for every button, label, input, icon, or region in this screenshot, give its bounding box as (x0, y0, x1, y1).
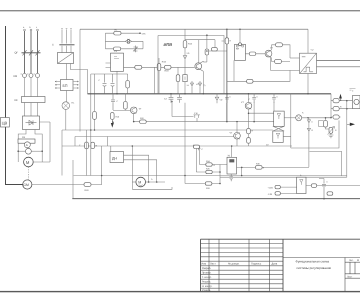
frame bottom border (0, 291, 360, 292)
zener VD4 (183, 55, 187, 61)
resistor R9 (275, 59, 282, 63)
tachogenerator BR1 (23, 180, 32, 189)
wire VT5 collector (236, 123, 238, 133)
wire lamp to bus (65, 109, 67, 130)
svg-text:QF: QF (15, 52, 19, 55)
wire rectifier minus pole (35, 130, 42, 163)
wire riser x220 (219, 165, 221, 184)
wire y74 row (91, 73, 128, 75)
transistor VT1 (195, 63, 202, 70)
wire riser x274 (273, 102, 275, 111)
motor M2 (136, 177, 146, 187)
power supply unit BP1 (61, 80, 74, 91)
wire switch to transformer (62, 46, 71, 53)
wire BP1 to lamp (65, 91, 68, 102)
svg-text:КК: КК (15, 99, 19, 102)
resistor R40 tacho feedback (84, 183, 91, 187)
svg-text:Т. контр.: Т. контр. (202, 276, 212, 279)
wire transformer to PSU (66, 64, 68, 80)
node snubber right (139, 32, 141, 34)
wire riser x101 (101, 146, 103, 176)
wire U1 top (231, 146, 233, 157)
node VT3 e (133, 121, 135, 123)
capacitor C7 (252, 94, 256, 103)
capacitor C8 (272, 94, 276, 103)
pins BP1 left (55, 81, 60, 89)
wire cross couple (273, 126, 284, 131)
wire phase A drop (24, 31, 26, 73)
wire VT3 base (113, 109, 130, 111)
voltmeter PV2 (26, 148, 32, 154)
resistor R13 (93, 112, 97, 120)
node pot branch (325, 117, 327, 119)
resistor R1 (114, 31, 121, 35)
svg-text:+12В: +12В (268, 187, 274, 190)
wire left voltmeter line (6, 26, 23, 185)
svg-text:ЦВ: ЦВ (2, 121, 8, 126)
svg-text:Функциональная схема: Функциональная схема (296, 259, 330, 263)
transformer T1 diagonal (58, 53, 74, 64)
wire riser x185b (184, 176, 186, 184)
wire A2 out loop (283, 94, 339, 148)
transistor VT4 (245, 103, 252, 110)
svg-text:Утверд.: Утверд. (202, 289, 212, 292)
wire diode hangs (192, 81, 200, 94)
diode VD6 (198, 82, 202, 87)
wire VT1 collector (202, 60, 204, 63)
wire y183 row (185, 183, 220, 185)
capacitor C5 (85, 142, 89, 149)
wire summator out (302, 117, 331, 119)
wire R5 row (207, 50, 227, 52)
resistor R26 (206, 170, 212, 173)
wire U1 j down (241, 167, 243, 175)
arrow minus out (111, 119, 114, 127)
wire relay to rectifier (25, 103, 38, 117)
svg-text:КН: КН (236, 48, 239, 51)
resistor R33 (333, 115, 339, 119)
summator AW1 (296, 115, 302, 121)
breaker QF1 contacts (23, 50, 40, 55)
node M2 j1 (148, 181, 150, 183)
node ipv top (206, 34, 208, 36)
svg-text:Лит.: Лит. (349, 259, 354, 262)
switch QS1 bar (59, 44, 74, 46)
wire riser x346 (346, 101, 348, 178)
wire collector join (203, 61, 207, 63)
voltage sensor DN box (110, 152, 124, 163)
svg-text:RS: RS (22, 136, 26, 139)
arrow up feedback (339, 94, 342, 99)
wire bias row (227, 70, 290, 81)
resistor R36 (275, 185, 280, 188)
wire to inverter (290, 57, 300, 59)
wire bus y175 (74, 175, 347, 177)
IPV enclosure (158, 36, 224, 94)
wire riser x80 (79, 29, 81, 131)
svg-text:(Т): (Т) (203, 84, 206, 87)
capacitor C14b below bus (111, 94, 115, 110)
wire riser x227 (226, 29, 228, 121)
diode VD9 (215, 94, 219, 103)
svg-text:БП: БП (63, 84, 68, 88)
output arrow right (347, 123, 355, 126)
diode VD5 (190, 82, 194, 87)
wire riser x94 (94, 74, 96, 130)
title block h-lines (201, 244, 284, 289)
resistor R10 (247, 79, 253, 83)
wire riser x89 low (90, 130, 92, 176)
wire KN bottom pin (233, 60, 235, 81)
resistor R4 (164, 65, 171, 69)
svg-text:-12В: -12В (268, 193, 273, 196)
wire pot link (326, 127, 331, 135)
wire C9 drop (195, 150, 197, 172)
wire riser x107 (106, 137, 108, 147)
wire riser x254 (253, 102, 255, 122)
capacitor C10h (172, 102, 200, 122)
transistor VT3 (130, 107, 137, 114)
resistor R37 (275, 192, 280, 195)
wire pot loop (319, 121, 324, 127)
wire C13 top (319, 179, 324, 186)
wire riser x206 (206, 35, 208, 62)
wire A1 input (249, 112, 274, 114)
rectifier VD1 box (23, 116, 40, 130)
wire R15 hangs (177, 67, 179, 93)
opamp A3 box (297, 177, 306, 193)
svg-text:GM: GM (23, 183, 29, 187)
wire PV2 right (31, 150, 42, 152)
wire y164 row (200, 164, 228, 166)
voltmeter box PV1 (1, 118, 10, 128)
resistor R15 (176, 75, 180, 82)
node j220a (219, 171, 221, 173)
ammeter PA1 (24, 142, 30, 148)
pulse box KN (235, 44, 246, 60)
load box M3 (353, 96, 360, 109)
wire pot branch (325, 118, 327, 121)
wire R37 to A3 (280, 192, 296, 194)
resistor R39 (327, 192, 333, 195)
resistor R28 (205, 182, 212, 185)
wire varistor row (105, 40, 143, 42)
thermal relay KK1 box (22, 97, 46, 103)
wire collector feed (185, 40, 215, 63)
wire R17 hang (124, 94, 126, 111)
capacitor C10 horizontal (194, 145, 200, 148)
zener VD7 (307, 119, 311, 123)
wire tacho feedback to bus (91, 176, 102, 185)
svg-text:М: М (138, 180, 141, 184)
wire VT4 top (248, 94, 250, 103)
wire inverter out1 (317, 60, 360, 62)
wire TZ output (124, 66, 195, 68)
wire VT2 emitter (271, 57, 300, 70)
wire top supply bus (80, 28, 308, 30)
wire PV2 left (18, 150, 25, 152)
potentiometer R35 (329, 127, 333, 133)
wire VT4 down (248, 109, 250, 128)
svg-text:Лист: Лист (210, 262, 216, 265)
resistor R21 (91, 142, 95, 148)
rectifier VD1 diode symbol (26, 120, 37, 125)
zener VD2 (134, 46, 138, 53)
node stack j2 (346, 108, 348, 110)
resistor R19 (157, 64, 161, 71)
wire VT3 emitter down (133, 114, 135, 122)
wire R19 to bus (158, 58, 160, 94)
wire KN out (245, 53, 265, 55)
node phase C terminal (37, 29, 39, 31)
resistor R22 (247, 128, 251, 133)
node M2 j2 (156, 181, 158, 183)
wire enclosure bottom (220, 176, 347, 178)
capacitor C4 (103, 74, 107, 94)
node PV2 left junction (17, 150, 19, 152)
wire DN feed (110, 146, 112, 152)
resistor R24 (206, 163, 212, 166)
wire transformer tap right (71, 64, 88, 94)
node bus junctions (90, 28, 332, 199)
node c10 j (171, 101, 172, 102)
wire tap x154 (153, 67, 155, 93)
wire bus y131 (62, 129, 273, 131)
capacitor C13 (322, 182, 326, 199)
node phase B terminal (30, 29, 32, 31)
regulator box U1 (227, 157, 237, 174)
node phase A terminal (24, 29, 26, 31)
resistor R6 (205, 49, 209, 55)
svg-text:Подпись: Подпись (251, 262, 262, 265)
wire inverter out2 (317, 66, 360, 68)
wire VT5 down (236, 139, 238, 146)
wire inverter feed (307, 29, 309, 53)
wire stack links (331, 101, 353, 117)
wire phase C drop (37, 31, 39, 73)
capacitor C2 (169, 94, 174, 103)
resistor R23 (247, 138, 251, 144)
node aux phase terminals (61, 28, 72, 30)
svg-text:1/2: 1/2 (187, 84, 190, 87)
capacitor C9 (194, 146, 200, 150)
wire VT2 bottom loop (272, 57, 291, 61)
wire riser x185 low (184, 103, 186, 176)
wire M1 right to riser (33, 122, 50, 162)
title block right part (283, 258, 360, 292)
svg-text:Реценз.: Реценз. (202, 280, 212, 283)
wire riser x89 (90, 74, 92, 130)
capacitor C6 (225, 94, 229, 103)
capacitor C4b (111, 74, 115, 94)
wire DN out1 (124, 155, 149, 182)
svg-text:Лист: Лист (347, 275, 353, 278)
wire phase B drop (30, 31, 32, 73)
resistor R31 (333, 99, 339, 103)
lamp HL1 (62, 102, 70, 110)
opamp A1 box (274, 111, 285, 126)
resistor R32 (333, 107, 339, 111)
wire tach bottom (132, 187, 172, 189)
transistor VT5 (234, 133, 241, 140)
node KN sync (239, 43, 242, 46)
wire bus y146 (62, 145, 292, 147)
resistor R34 (324, 121, 328, 128)
wire aux phase drops (62, 29, 71, 43)
resistor R7 (225, 38, 229, 44)
resistor R16 (111, 113, 115, 120)
motor M1 (24, 157, 34, 167)
opamp A2 box (273, 131, 283, 142)
wire bus y136 (75, 136, 234, 138)
control box TZ (111, 53, 124, 71)
capacitor C1 (183, 75, 187, 82)
frame top border (0, 10, 360, 11)
pins BP1 right (74, 81, 79, 89)
resistor R12 (127, 74, 129, 94)
wire M2 left (132, 181, 136, 183)
wire riser x185 (184, 29, 186, 93)
wire left riser snubber (104, 33, 106, 49)
resistor R2 (114, 47, 121, 51)
wire riser x62 (61, 130, 63, 176)
wire M2 drop (131, 146, 133, 189)
wire A1 out (284, 117, 296, 119)
wire bus y122 (134, 121, 274, 123)
node U1 j (241, 167, 243, 169)
svg-text:М: М (357, 259, 359, 262)
wire R36 to A3 (280, 186, 296, 188)
wire riser x92 (86, 130, 88, 176)
enclosure lower right (309, 152, 341, 177)
svg-text:Разраб.: Разраб. (202, 267, 212, 270)
resistor R17 (124, 102, 128, 110)
wire inverter bottom to bus (307, 74, 309, 94)
wire rc row 3 (105, 48, 143, 50)
wire VT1 emitter to bus (202, 71, 204, 93)
ground G1 (328, 135, 333, 138)
capacitor C11 (229, 174, 233, 181)
pins TZ left (106, 63, 111, 68)
svg-text:Н. контр.: Н. контр. (202, 285, 213, 288)
wire riser x73 (72, 160, 74, 199)
wire riser x331 (326, 94, 332, 118)
contactor KM1 contacts (23, 74, 40, 78)
resistor R20 (140, 120, 147, 124)
varistor RU1 (125, 39, 131, 44)
node PV2 right junction (41, 150, 43, 152)
node stack j1 (346, 100, 348, 102)
wire rectifier plus pole (18, 130, 26, 140)
resistor R3 (135, 65, 142, 69)
shunt RS1 (18, 139, 35, 143)
wire A3 out (306, 185, 360, 187)
transformer T1 box (58, 53, 74, 64)
breaker QF1 bar (22, 52, 41, 54)
resistor R11 (249, 52, 256, 56)
wire zener column (308, 118, 310, 167)
wire T2 stub (214, 40, 216, 48)
wire y172 row (196, 171, 220, 173)
resistor R14 (183, 41, 187, 48)
wire common bus y94 (88, 93, 332, 95)
node j220b (219, 183, 221, 185)
wire riser x75 (74, 137, 76, 147)
svg-text:ИПВ: ИПВ (164, 42, 173, 47)
transistor VT2 (265, 50, 272, 57)
svg-text:A: A (26, 143, 28, 147)
wire y164 feed (199, 146, 201, 165)
wire TZ bottom to bus (116, 71, 118, 94)
capacitor C3 (177, 94, 182, 103)
wire rc snubber top (105, 32, 140, 34)
wire phases to relay (25, 78, 38, 97)
resistor R5 (212, 48, 218, 51)
svg-text:КМ: КМ (14, 75, 18, 78)
svg-text:тХХ: тХХ (142, 32, 146, 35)
wire right riser snubber (142, 41, 144, 49)
wire VT2 top loop (272, 45, 291, 58)
svg-text:ДН: ДН (112, 156, 117, 160)
title block outline (201, 239, 360, 291)
svg-text:Провер.: Провер. (202, 271, 212, 274)
inverter UZ1 symbols (300, 54, 316, 74)
svg-text:системы регулирования: системы регулирования (297, 266, 332, 270)
wire M2 right (146, 181, 166, 183)
wire tacho output right (32, 184, 84, 186)
resistor R38 (311, 184, 316, 188)
svg-text:Дата: Дата (272, 262, 278, 265)
wire U1 out (237, 166, 310, 168)
wire DN out2 (124, 160, 157, 182)
wire shunt down (17, 143, 19, 162)
wire bus y198 (72, 198, 360, 200)
wire R22 R23 link (248, 134, 250, 146)
svg-text:≈U: ≈U (311, 49, 314, 52)
resistor R8 (276, 43, 283, 47)
svg-text:М: М (26, 160, 30, 165)
glyphs KN top (236, 45, 243, 47)
shaft link M1 to tacho (27, 167, 29, 180)
svg-text:Изм: Изм (201, 262, 206, 265)
inverter UZ1 box (300, 53, 317, 73)
title block v-lines (209, 239, 270, 291)
resistor R30 (256, 166, 263, 170)
svg-text:№ докум.: № докум. (228, 262, 240, 265)
zener VD8 (307, 128, 311, 132)
